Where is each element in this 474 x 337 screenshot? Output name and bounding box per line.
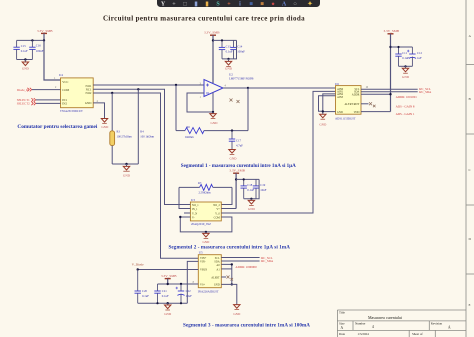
C21 labels	[162, 289, 169, 298]
svg-text:R6: R6	[187, 125, 191, 129]
no-connect marks pins 1/5	[230, 99, 240, 104]
power port 3.3V_SMB (opamp)	[204, 31, 220, 83]
svg-text:4.7uF: 4.7uF	[236, 144, 243, 148]
wire U5 SCL	[221, 257, 259, 259]
svg-text:Y: Y	[161, 1, 166, 7]
svg-text:C11: C11	[402, 51, 407, 55]
wire V_Diode to VBUS	[138, 269, 199, 271]
ground (U5)	[233, 305, 241, 316]
svg-text:I2C_SDA: I2C_SDA	[261, 259, 274, 263]
port SELECT1	[17, 98, 61, 102]
op-amp U2 triangle	[204, 80, 223, 97]
ground (U4)	[101, 119, 109, 130]
op-amp +/- marks	[206, 84, 209, 94]
node junction output/feedback	[247, 87, 249, 89]
svg-text:C15: C15	[21, 44, 27, 48]
svg-text:U4: U4	[59, 73, 63, 77]
svg-text:GND: GND	[248, 207, 256, 211]
U6 pin names	[337, 88, 360, 114]
svg-text:V-: V-	[192, 216, 195, 219]
svg-text:GND: GND	[85, 101, 92, 105]
svg-text:C21: C21	[162, 289, 168, 293]
svg-text:C18: C18	[247, 183, 253, 187]
node junction A/feedback	[175, 84, 177, 86]
svg-text:✦: ✦	[307, 0, 312, 7]
svg-text:0.1uF: 0.1uF	[142, 294, 149, 298]
capacitor C21	[154, 284, 160, 303]
node junction	[389, 46, 391, 48]
svg-text:■: ■	[249, 1, 253, 7]
svg-text:3.3V_SMB: 3.3V_SMB	[204, 31, 220, 35]
svg-text:●: ●	[271, 1, 275, 7]
node junction	[227, 58, 229, 60]
wire U6 SDA out	[361, 91, 418, 93]
C20 labels	[142, 289, 149, 298]
no-connect (U6 ALERT/RDY)	[361, 102, 376, 107]
zone letters	[469, 34, 472, 307]
port Diode_K	[17, 86, 61, 92]
capacitor C18	[241, 179, 247, 198]
svg-text:ADS1115IDGST: ADS1115IDGST	[335, 116, 356, 120]
svg-text:INA226AIDGST: INA226AIDGST	[198, 290, 219, 294]
wire AIN2 to gnd	[323, 94, 336, 114]
title block	[337, 310, 466, 337]
ground (U3 loop)	[202, 232, 210, 244]
svg-text:I2C_SDA: I2C_SDA	[419, 90, 432, 94]
resistor R6	[185, 125, 204, 139]
svg-text:V+: V+	[216, 208, 220, 211]
ground (C18/C19)	[248, 199, 256, 212]
svg-text:A: A	[282, 1, 287, 7]
svg-text:Revision: Revision	[431, 321, 443, 325]
svg-text:GND: GND	[123, 173, 131, 177]
ground (C11/C12)	[402, 66, 410, 79]
svg-text:C12: C12	[417, 51, 423, 55]
power port 3.3V_SMB (U3)	[229, 169, 245, 209]
node junction	[137, 268, 139, 270]
ground (U6 inputs)	[319, 114, 327, 126]
svg-text:0.1uF: 0.1uF	[247, 188, 254, 192]
node junction	[404, 65, 406, 67]
svg-text:Title: Title	[339, 311, 345, 315]
wire U3 COM bottom loop	[180, 217, 232, 232]
node junction B/R4	[137, 88, 139, 90]
svg-text:+: +	[172, 1, 176, 7]
svg-text:Masurarea curentului: Masurarea curentului	[368, 315, 403, 320]
svg-text:GND: GND	[202, 240, 210, 244]
svg-text:GND: GND	[214, 284, 220, 287]
svg-text:■: ■	[260, 1, 264, 7]
resistor R3	[110, 93, 133, 164]
wire cap rail top	[213, 39, 237, 41]
svg-text:GND: GND	[402, 75, 410, 79]
op-amp V- pin to gnd	[212, 93, 214, 112]
node junction	[43, 39, 45, 41]
U3 pin names	[192, 204, 220, 219]
wire gnd rail (U5 caps)	[138, 302, 188, 304]
wire cap rail bottom	[222, 40, 237, 59]
svg-text:Y_N: Y_N	[192, 212, 197, 215]
wire U3 row1 right to R7 (drawn above) and V+ feed	[221, 208, 236, 210]
svg-text:10uF: 10uF	[186, 294, 193, 298]
svg-text:TS5A23159DCUT: TS5A23159DCUT	[60, 109, 83, 113]
ground (top-left)	[22, 60, 30, 71]
svg-text:E: E	[469, 303, 471, 307]
svg-text:Sheet of: Sheet of	[412, 332, 423, 336]
svg-text:NO_2: NO_2	[213, 204, 220, 207]
C13 labels	[226, 44, 233, 53]
svg-text:3.3V_SMB: 3.3V_SMB	[161, 274, 177, 278]
svg-text:94Ohm: 94Ohm	[185, 135, 194, 139]
svg-text:C17: C17	[236, 138, 242, 142]
svg-text:ALERT: ALERT	[211, 276, 220, 279]
wire cap rail top (C11/C12)	[391, 46, 413, 48]
C18 labels	[247, 183, 254, 192]
U4 pin names	[62, 80, 92, 105]
capacitor C14	[230, 40, 236, 59]
svg-text:Date: Date	[339, 332, 346, 336]
svg-text:COM: COM	[62, 88, 69, 92]
capacitor C20	[135, 270, 141, 304]
svg-text:ADS - GAIN 8: ADS - GAIN 8	[396, 105, 415, 109]
wire U3 output to ADC AIN1	[221, 91, 335, 213]
node junction C/R3	[111, 92, 113, 94]
node junction	[180, 302, 182, 304]
wire R3/R4 bottom rail	[112, 163, 138, 165]
svg-text:C20: C20	[142, 289, 148, 293]
svg-text:ALERT/RDY: ALERT/RDY	[344, 103, 359, 106]
capacitor C16	[29, 40, 35, 59]
svg-text:4: 4	[372, 325, 374, 329]
wire U4 GND pin	[93, 103, 104, 119]
node junction	[231, 263, 233, 265]
U3 left pin stubs	[184, 205, 190, 218]
C12 labels	[417, 51, 423, 60]
svg-text:Segmentul 3 - masurarea curent: Segmentul 3 - masurarea curentului intre…	[183, 323, 310, 329]
node junction	[24, 58, 26, 60]
node junction	[31, 39, 33, 41]
svg-text:3.3V_SMB: 3.3V_SMB	[384, 29, 400, 33]
sheet border right edge	[466, 0, 474, 337]
svg-text:C22: C22	[186, 289, 192, 293]
C11 labels	[402, 51, 409, 60]
svg-text:AIN3: AIN3	[337, 96, 344, 99]
node junction	[231, 283, 233, 285]
svg-text:SELECT2: SELECT2	[17, 102, 30, 106]
svg-text:Segmentul 2 - masurarea curent: Segmentul 2 - masurarea curentului intre…	[169, 245, 291, 251]
svg-text:A: A	[341, 326, 344, 330]
svg-text:COM: COM	[214, 216, 221, 219]
wire net C (NO2 down to INA)	[93, 93, 198, 258]
svg-text:GND: GND	[233, 312, 241, 316]
svg-text:A: A	[448, 326, 451, 330]
wire VS+ rail	[158, 283, 199, 285]
wire feedback down legs	[175, 85, 177, 131]
svg-text:C16: C16	[36, 44, 42, 48]
node junction	[212, 111, 214, 113]
C19 labels	[260, 183, 267, 192]
wire inverting input loop	[187, 93, 213, 112]
svg-text:GND: GND	[211, 121, 219, 125]
ground (C13/C14)	[225, 59, 233, 70]
capacitor C12 polarized	[407, 47, 416, 66]
svg-text:ADS - GAIN 1: ADS - GAIN 1	[396, 112, 415, 116]
wire VIN- stub	[187, 261, 198, 303]
wire feedback bottom	[176, 130, 185, 132]
node junction	[243, 178, 245, 180]
wire R7 loop top	[179, 186, 200, 188]
node junction	[125, 163, 127, 165]
svg-text:▮: ▮	[194, 1, 197, 7]
svg-text:VDD: VDD	[354, 111, 360, 114]
wire AIN3 to gnd	[319, 96, 336, 112]
wire R7 right leg	[221, 187, 232, 204]
svg-text:100 1kOhm: 100 1kOhm	[140, 134, 154, 138]
svg-text:LMP7715MF/NOPB: LMP7715MF/NOPB	[229, 77, 253, 81]
svg-text:VCC: VCC	[62, 80, 68, 84]
wire U5 SDA	[221, 260, 259, 262]
node junction	[167, 283, 169, 285]
svg-text:100.57kOhm: 100.57kOhm	[117, 134, 133, 138]
svg-text:GND: GND	[164, 312, 172, 316]
node junction	[212, 39, 214, 41]
C16 labels	[36, 44, 44, 53]
svg-text:○: ○	[293, 1, 297, 7]
power port 3.3V_SMB (U5)	[161, 274, 177, 284]
svg-text:□: □	[183, 1, 187, 7]
svg-text:+: +	[227, 1, 231, 7]
wire U6 SCL out	[361, 88, 418, 90]
node junction C17	[231, 129, 233, 131]
svg-text:GND: GND	[101, 125, 109, 129]
svg-text:3.3V_SMB: 3.3V_SMB	[37, 29, 53, 33]
node junction	[179, 216, 181, 218]
svg-text:R3: R3	[117, 130, 121, 134]
svg-text:Comutator pentru selectarea ga: Comutator pentru selectarea gamei	[17, 124, 98, 130]
wire R7 left leg	[179, 187, 184, 208]
toolbar	[157, 0, 320, 7]
svg-text:V_Diode: V_Diode	[132, 262, 144, 266]
node junction	[389, 93, 391, 95]
wire U6 ADDR to VDD	[361, 93, 391, 95]
svg-text:1uF: 1uF	[417, 56, 422, 60]
capacitor C11	[395, 47, 401, 66]
svg-text:VS+: VS+	[200, 284, 205, 287]
capacitor C15	[13, 40, 19, 59]
svg-text:10nF: 10nF	[260, 188, 267, 192]
svg-text:R4: R4	[140, 130, 144, 134]
svg-text:GND: GND	[22, 67, 30, 71]
svg-text:C14: C14	[237, 44, 243, 48]
wire VCC feed	[44, 40, 61, 80]
C15 labels	[21, 44, 28, 53]
resistor R7	[198, 181, 213, 195]
power port 3.3V_SMB (left)	[37, 29, 53, 41]
svg-text:GND: GND	[319, 123, 327, 127]
wire net A (NO1 to opamp +)	[93, 84, 204, 86]
wire top rail	[17, 39, 44, 41]
wire bottom rail	[17, 59, 33, 61]
svg-text:0.1uF: 0.1uF	[162, 294, 169, 298]
svg-text:VIN-: VIN-	[200, 261, 206, 264]
svg-text:NO_1: NO_1	[192, 204, 199, 207]
ground (R3/R4)	[123, 164, 131, 177]
svg-text:0.1uF: 0.1uF	[402, 56, 409, 60]
svg-text:▮: ▮	[205, 1, 208, 7]
svg-text:Number: Number	[355, 321, 366, 325]
svg-text:Y_0: Y_0	[215, 212, 220, 215]
svg-text:ADDR: ADDR	[352, 93, 360, 96]
svg-text:U5: U5	[199, 251, 203, 255]
port SELECT2	[17, 102, 61, 106]
wire U6 VDD	[361, 111, 391, 113]
wire output to ADC AIN0	[248, 87, 336, 89]
wire U6 GND pin	[323, 111, 336, 113]
U5 pin names	[200, 257, 220, 286]
node junction	[167, 302, 169, 304]
svg-text:1/3/2024: 1/3/2024	[357, 332, 369, 336]
node junction	[221, 39, 223, 41]
node junction	[322, 110, 324, 112]
wire cap rail bottom	[244, 179, 259, 198]
svg-text:GND: GND	[225, 66, 233, 70]
capacitor C22 polarized	[176, 284, 185, 303]
svg-text:VBUS: VBUS	[200, 268, 208, 271]
switch U4 body	[61, 78, 94, 108]
svg-text:ADDR: 1000000: ADDR: 1000000	[235, 265, 257, 269]
svg-text:2.5MOhm: 2.5MOhm	[199, 191, 212, 195]
svg-text:IN2: IN2	[62, 102, 67, 106]
svg-text:C13: C13	[226, 44, 232, 48]
ground (op-amp)	[210, 112, 218, 125]
svg-text:C19: C19	[260, 183, 266, 187]
switch U3 body	[190, 202, 221, 221]
svg-text:ADDR: 1001001: ADDR: 1001001	[396, 95, 418, 99]
svg-text:100nF: 100nF	[36, 49, 44, 53]
ground (C17)	[229, 150, 237, 161]
no-connect (U5 ALERT)	[221, 276, 233, 281]
node junction	[205, 231, 207, 233]
wire cap rail top (C18/C19)	[236, 178, 259, 180]
svg-text:GND: GND	[230, 156, 238, 160]
C14 labels	[237, 44, 245, 53]
wire op-amp output	[223, 87, 248, 89]
svg-text:20AQ2019_JXZ: 20AQ2019_JXZ	[191, 222, 211, 226]
node junction	[235, 178, 237, 180]
svg-text:3.3V_SMB: 3.3V_SMB	[229, 169, 245, 173]
node junction	[156, 302, 158, 304]
capacitor C17	[229, 131, 235, 150]
power port 3.3V_SMB (U6)	[384, 29, 400, 111]
ADC U6 body	[336, 86, 362, 115]
svg-text:100nF: 100nF	[237, 49, 245, 53]
node junction	[397, 46, 399, 48]
capacitor C19	[253, 179, 259, 198]
svg-text:0.1uF: 0.1uF	[21, 49, 28, 53]
wire cap rail bottom	[399, 65, 413, 67]
wire U5 GND	[221, 284, 237, 304]
resistor R4 (wire link)	[138, 89, 154, 164]
ground (U5 caps)	[164, 303, 172, 316]
wire U5 A0/A1 address strap	[221, 264, 232, 284]
wire net B (NC1 down to segment 2 switch)	[93, 89, 184, 204]
svg-text:Size: Size	[339, 321, 345, 325]
C22 labels	[186, 289, 193, 298]
svg-text:Circuitul pentru masurarea cur: Circuitul pentru masurarea curentului ca…	[103, 14, 305, 22]
node junction	[250, 198, 252, 200]
svg-text:NO2: NO2	[86, 91, 92, 95]
svg-text:R7: R7	[198, 181, 202, 185]
svg-text:GND: GND	[337, 111, 343, 114]
node junction	[180, 283, 182, 285]
monitor U5 body	[198, 255, 221, 288]
svg-text:IN_1: IN_1	[192, 208, 198, 211]
capacitor C13	[219, 40, 225, 59]
C17 labels	[236, 138, 243, 147]
